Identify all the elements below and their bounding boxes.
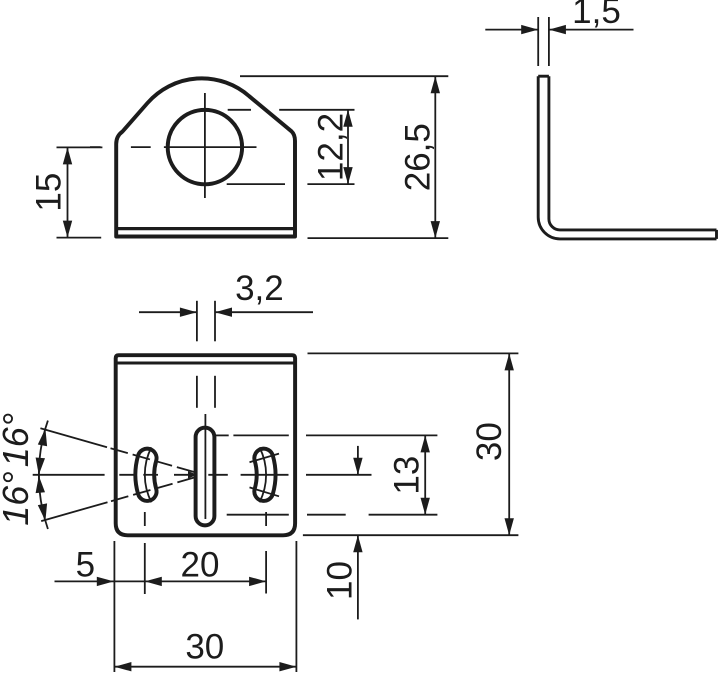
right curved slot xyxy=(254,449,275,501)
left curved slot xyxy=(135,449,156,501)
extension lines for 3,2 xyxy=(196,301,198,342)
side view: L profile inner line xyxy=(549,76,717,230)
svg-text:5: 5 xyxy=(76,545,95,584)
extension line: hole top xyxy=(228,109,251,111)
dimension 1,5 line right xyxy=(549,29,634,31)
dimension 30 right line xyxy=(508,353,510,535)
right slot centerline dash below xyxy=(265,512,267,526)
svg-text:10: 10 xyxy=(321,561,360,600)
dimension 30 bottom line xyxy=(114,666,296,668)
front view: bend line xyxy=(116,227,295,230)
16 deg ray lower-right xyxy=(250,487,280,496)
svg-text:20: 20 xyxy=(181,545,220,584)
dimension 26,5 line xyxy=(434,76,436,238)
extension line: plate bottom right xyxy=(303,534,519,536)
svg-text:30: 30 xyxy=(470,422,509,461)
dimension 10 lower arrow xyxy=(357,535,359,619)
front view: bracket outline xyxy=(116,78,295,236)
extension line: front bottom xyxy=(308,237,449,239)
svg-text:3,2: 3,2 xyxy=(235,269,284,308)
dimension 3,2 line right xyxy=(215,311,313,313)
extension line: plate left edge below xyxy=(113,541,115,672)
16 deg line lower-left xyxy=(41,502,107,521)
extension line: slot top (13) xyxy=(216,434,229,436)
svg-text:16°: 16° xyxy=(0,413,36,467)
horizontal centerline through slots xyxy=(33,474,105,476)
svg-text:16°: 16° xyxy=(0,471,36,525)
extension line: left slot center below xyxy=(144,543,146,594)
left slot arc centerline xyxy=(145,447,152,502)
bottom view: plate outline xyxy=(116,355,295,535)
front view: hole circle xyxy=(168,110,242,184)
dimension 20 line xyxy=(114,580,266,582)
svg-text:30: 30 xyxy=(185,628,224,667)
dimension 15 line xyxy=(67,147,69,237)
side view: L profile outer line xyxy=(538,76,716,239)
svg-text:13: 13 xyxy=(388,456,427,495)
angle arc lower xyxy=(39,469,48,529)
center slot xyxy=(196,428,215,526)
side view: right end cap xyxy=(715,230,718,239)
side view: top end cap xyxy=(538,75,549,78)
angle arc upper xyxy=(39,421,48,481)
extension line: front bottom left xyxy=(57,237,102,239)
right slot arc centerline xyxy=(260,447,267,502)
extension line: hole centerline left xyxy=(57,146,103,148)
svg-text:15: 15 xyxy=(30,173,69,212)
extension lines for 1,5 xyxy=(537,17,539,66)
svg-text:12,2: 12,2 xyxy=(312,113,351,181)
front view: hole horizontal centerline xyxy=(90,146,101,148)
dimension 1,5 line left xyxy=(485,29,538,31)
vertex wedge xyxy=(188,471,197,479)
dimension 10 upper arrow xyxy=(357,446,359,475)
extension line: plate top right xyxy=(308,352,519,354)
16 deg ray upper-right xyxy=(250,454,280,463)
left slot centerline dash below xyxy=(144,512,146,526)
bottom view: bend line xyxy=(114,362,297,365)
svg-text:1,5: 1,5 xyxy=(572,0,621,31)
svg-text:26,5: 26,5 xyxy=(399,123,438,191)
extension line: front top xyxy=(240,75,448,77)
extension line: right slot center below xyxy=(265,551,267,594)
dimension 5 line xyxy=(55,580,115,582)
16 deg line upper-left xyxy=(40,428,107,447)
dimension 3,2 line left xyxy=(139,311,197,313)
extension line: plate right edge below xyxy=(295,541,297,672)
center slot vertical centerline xyxy=(204,414,206,519)
front view: hole vertical centerline xyxy=(204,93,206,198)
center slot hidden edge lines xyxy=(196,376,198,408)
dimension 12,2 line xyxy=(347,110,349,184)
dimension 13 line xyxy=(424,435,426,514)
extension line: hole bottom xyxy=(227,183,285,185)
extension line: slot bottom (13) xyxy=(227,514,289,516)
